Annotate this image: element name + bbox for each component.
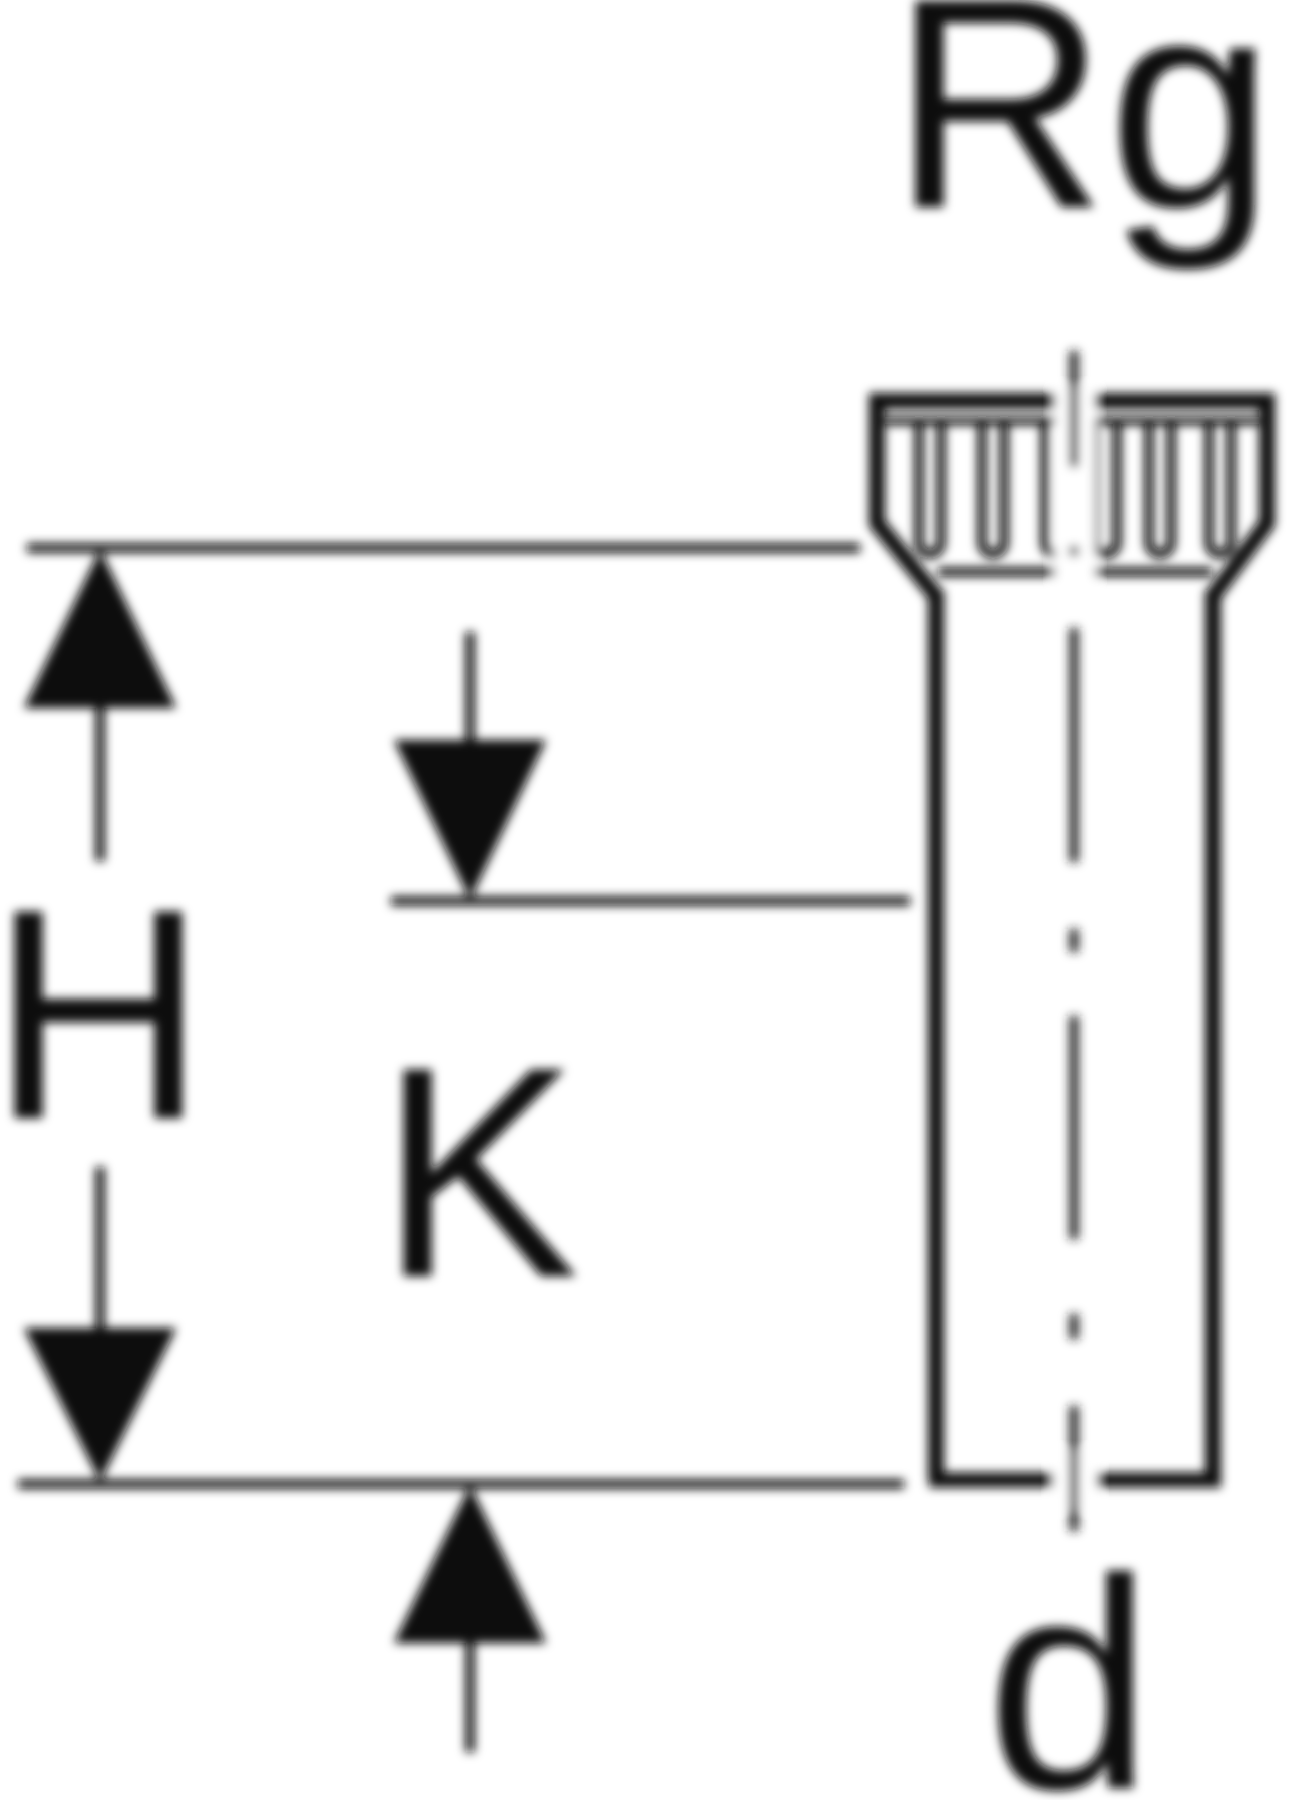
svg-text:d: d	[986, 1516, 1153, 1800]
svg-text:K: K	[379, 1004, 579, 1340]
svg-text:Rg: Rg	[891, 0, 1275, 273]
svg-text:H: H	[0, 846, 207, 1182]
